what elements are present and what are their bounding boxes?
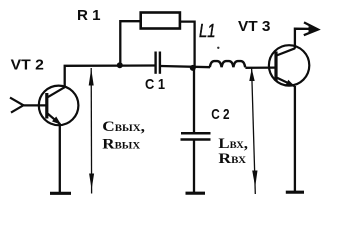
wire: main bus C1 to L1 (161, 66, 210, 67)
svg-text:C 1: C 1 (145, 76, 165, 93)
capacitor C2 (181, 133, 211, 139)
capacitor C1 (156, 52, 160, 74)
wire: VT2 collector up to main bus (65, 66, 155, 88)
svg-text:VT 2: VT 2 (11, 57, 44, 74)
wire: R1 right lead (181, 22, 195, 68)
svg-text:L1: L1 (199, 21, 216, 41)
speck (217, 47, 219, 49)
input arrow (10, 98, 23, 113)
node A junction dot (117, 62, 123, 68)
measurement arrow Cвых/Rвых (89, 68, 94, 194)
node B junction dot (190, 65, 196, 71)
svg-text:R 1: R 1 (77, 7, 101, 24)
ground C2 (186, 192, 206, 195)
svg-text:VT 3: VT 3 (238, 18, 271, 35)
wire: C2 top lead (193, 68, 195, 133)
output arrow (304, 22, 318, 35)
ground VT2 (50, 192, 71, 195)
wire: VT2 emitter down (59, 124, 61, 193)
wire: VT3 emitter down (294, 86, 296, 193)
inductor L1 (210, 61, 245, 67)
wire: R1 left lead (120, 21, 140, 65)
svg-text:C 2: C 2 (211, 106, 229, 123)
ground VT3 (286, 191, 304, 194)
measurement arrow Lвх/Rвх (249, 68, 257, 194)
resistor R1 (141, 13, 180, 29)
wire: C2 bottom lead (193, 141, 195, 194)
wire: VT2 base lead (22, 104, 46, 106)
wire: L1 to VT3 base (245, 66, 274, 69)
transistor VT3 (269, 45, 309, 86)
wire: VT3 collector up (295, 29, 313, 49)
transistor VT2 (39, 86, 79, 126)
